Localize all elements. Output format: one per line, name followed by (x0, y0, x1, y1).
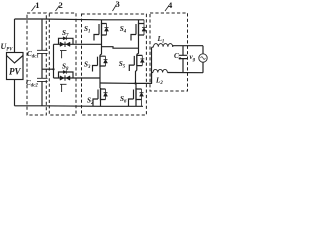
svg-text:3: 3 (116, 0, 120, 9)
capacitor Cdc1 (37, 50, 48, 53)
svg-text:S6: S6 (120, 95, 127, 105)
bidirectional switch S8 (bottom clamp module) (54, 70, 101, 92)
wire output riser to L1 (151, 48, 153, 84)
leader tick label 4 (165, 6, 169, 12)
svg-text:vg: vg (190, 53, 196, 63)
svg-text:UPV: UPV (1, 42, 14, 53)
wire S2 source to rail (100, 101, 102, 107)
inductor L2 (152, 69, 204, 72)
svg-text:S4: S4 (120, 25, 127, 35)
wire main path (54, 43, 102, 45)
svg-text:1: 1 (35, 0, 39, 10)
body diode bridge (59, 38, 74, 44)
wire main path (54, 77, 101, 79)
grid AC source circle (199, 54, 207, 62)
PV chevron (7, 56, 24, 64)
dashed box 2 (clamp switches) (49, 13, 76, 115)
body diode bridge (59, 72, 74, 78)
wire S4 drain (138, 20, 140, 23)
wire PV top (14, 19, 16, 53)
capacitor Co branch (182, 46, 184, 73)
wire between capacitors (41, 53, 43, 78)
mosfet S6 (129, 88, 144, 106)
svg-text:S3: S3 (84, 61, 91, 71)
node midpoint junction (52, 68, 54, 70)
svg-text:S5: S5 (119, 60, 126, 70)
capacitor Co plates (179, 55, 187, 58)
svg-text:2: 2 (59, 0, 63, 10)
mosfet S5 (129, 54, 144, 71)
svg-text:PV: PV (9, 67, 21, 77)
svg-text:Cdc2: Cdc2 (26, 79, 38, 89)
svg-text:S1: S1 (84, 25, 90, 35)
mosfet S1 (94, 23, 109, 41)
mosfet S4 (131, 20, 146, 41)
wire PV bottom (14, 80, 16, 106)
mosfet S3 (93, 55, 108, 71)
svg-text:4: 4 (168, 0, 173, 10)
dashed box 3 (bridge) (82, 14, 147, 115)
node lower output junction (134, 82, 136, 84)
gate of bottom module (60, 84, 67, 92)
wire top rail (15, 18, 145, 21)
wire S1 drain (101, 20, 103, 23)
wire capacitor midpoint tap (42, 68, 54, 70)
gate of top module (60, 51, 67, 59)
wire S3 source to lower node (99, 67, 101, 88)
wire S4 source down (137, 36, 139, 54)
svg-text:S2: S2 (87, 97, 94, 107)
wire capacitor branch top (41, 19, 43, 50)
bidirectional switch S7 (top clamp module) (54, 37, 102, 59)
leader tick label 3 (113, 5, 117, 12)
switch body triangles (60, 42, 70, 46)
svg-text:Co: Co (174, 52, 182, 62)
wire clamp bus (53, 44, 55, 78)
leader tick label 1 (32, 6, 36, 12)
wire lower output to L2 (100, 73, 152, 84)
svg-text:L1: L1 (157, 35, 165, 45)
mosfet S2 (93, 88, 108, 106)
wire S6 source to rail (135, 101, 137, 107)
wire S5 source jog down (136, 67, 137, 84)
inductor L1 (152, 44, 204, 48)
dashed box 1 (input capacitors) (27, 13, 46, 115)
grid source wires (202, 46, 204, 73)
capacitor Cdc2 (37, 78, 48, 81)
dashed box 4 (filter) (150, 13, 188, 91)
wire S6 drain (135, 83, 137, 88)
wire bottom rail (15, 105, 144, 108)
svg-text:L2: L2 (155, 77, 163, 87)
sine inside source (201, 57, 206, 60)
wire capacitor branch bottom (41, 81, 43, 105)
wire S1 source to node A (100, 36, 102, 55)
leader tick label 2 (56, 6, 60, 12)
diode on bridge (63, 37, 66, 40)
svg-text:Cdc1: Cdc1 (27, 50, 39, 60)
diode on bridge (63, 70, 66, 73)
switch body triangles (60, 76, 70, 80)
PV source box (7, 53, 24, 80)
wire node A jog to S5 drain (102, 47, 139, 49)
